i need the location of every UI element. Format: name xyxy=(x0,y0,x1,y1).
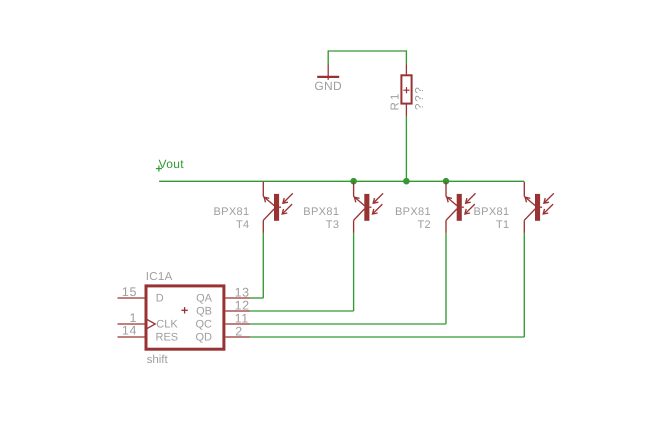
svg-text:14: 14 xyxy=(122,323,137,337)
svg-text:QA: QA xyxy=(196,293,213,305)
svg-text:11: 11 xyxy=(235,311,249,325)
svg-text:2: 2 xyxy=(235,325,243,339)
svg-text:BPX81: BPX81 xyxy=(474,206,510,218)
svg-text:15: 15 xyxy=(122,285,137,299)
svg-text:RES: RES xyxy=(156,332,179,344)
svg-text:BPX81: BPX81 xyxy=(395,206,431,218)
svg-text:T3: T3 xyxy=(326,219,340,231)
svg-text:R1: R1 xyxy=(389,91,401,110)
svg-text:CLK: CLK xyxy=(156,319,178,331)
svg-text:BPX81: BPX81 xyxy=(214,206,250,218)
svg-text:BPX81: BPX81 xyxy=(303,206,339,218)
svg-text:QD: QD xyxy=(196,332,213,344)
svg-text:13: 13 xyxy=(235,285,250,299)
svg-text:T1: T1 xyxy=(496,219,510,231)
svg-text:QB: QB xyxy=(196,306,212,318)
svg-text:12: 12 xyxy=(235,299,250,313)
svg-text:IC1A: IC1A xyxy=(146,271,173,283)
svg-text:D: D xyxy=(156,293,164,305)
svg-text:T4: T4 xyxy=(236,219,250,231)
svg-text:shift: shift xyxy=(147,354,169,366)
svg-text:T2: T2 xyxy=(417,219,431,231)
svg-text:QC: QC xyxy=(196,319,213,331)
svg-text:Vout: Vout xyxy=(159,157,185,171)
svg-text:???: ??? xyxy=(414,85,426,110)
svg-text:GND: GND xyxy=(314,79,342,93)
